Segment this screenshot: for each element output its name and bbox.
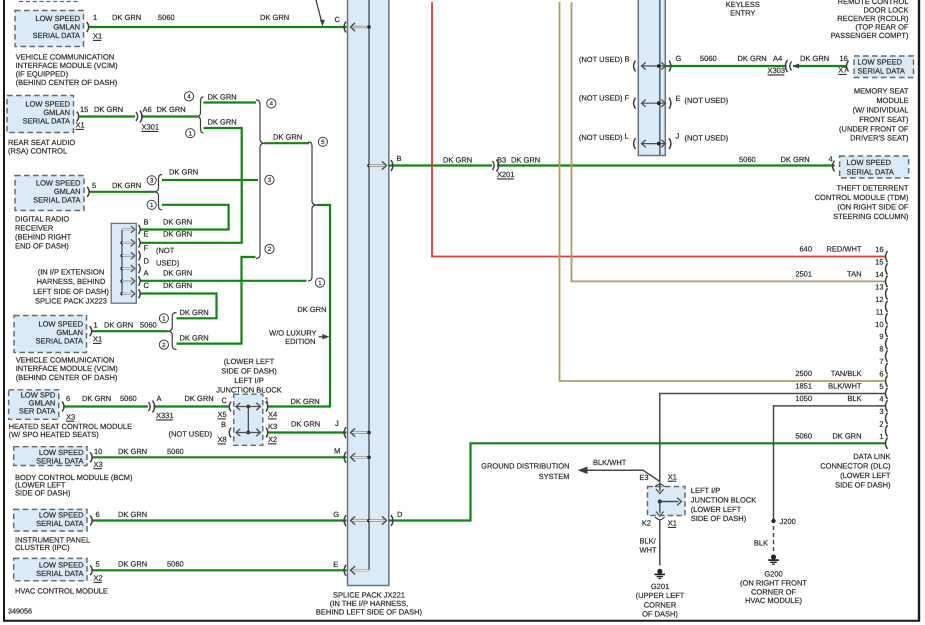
svg-text:SERIAL DATA: SERIAL DATA [36, 457, 83, 466]
svg-text:STEERING COLUMN): STEERING COLUMN) [833, 212, 909, 221]
svg-text:13: 13 [875, 282, 883, 291]
svg-text:CLUSTER (IPC): CLUSTER (IPC) [15, 543, 70, 552]
svg-text:L: L [625, 132, 629, 141]
svg-text:JUNCTION BLOCK: JUNCTION BLOCK [216, 386, 281, 395]
svg-text:X4: X4 [268, 410, 277, 419]
svg-text:BLK/: BLK/ [640, 537, 657, 546]
svg-text:TAN: TAN [847, 269, 861, 278]
svg-text:LOW SPEED: LOW SPEED [847, 158, 892, 167]
svg-text:BLK: BLK [847, 394, 861, 403]
svg-text:DK GRN: DK GRN [180, 334, 209, 343]
svg-text:DIGITAL RADIO: DIGITAL RADIO [15, 215, 69, 224]
svg-text:B: B [221, 420, 226, 429]
svg-text:DK GRN: DK GRN [163, 269, 192, 278]
svg-text:9: 9 [879, 332, 883, 341]
svg-text:C: C [144, 281, 150, 290]
svg-text:(NOT USED): (NOT USED) [579, 133, 623, 142]
svg-text:A4: A4 [773, 54, 782, 63]
svg-text:2: 2 [268, 246, 272, 253]
svg-text:2500: 2500 [795, 369, 812, 378]
svg-text:(ON RIGHT FRONT: (ON RIGHT FRONT [740, 578, 807, 587]
svg-text:1: 1 [93, 13, 97, 22]
svg-text:6: 6 [879, 370, 883, 379]
svg-text:CORNER: CORNER [644, 600, 677, 609]
svg-text:SER DATA: SER DATA [19, 407, 55, 416]
svg-text:MEMORY SEAT: MEMORY SEAT [854, 87, 909, 96]
svg-text:KEYLESS: KEYLESS [726, 0, 760, 9]
svg-text:GROUND DISTRIBUTION: GROUND DISTRIBUTION [481, 461, 569, 470]
svg-text:5: 5 [92, 181, 96, 190]
svg-text:BLK: BLK [754, 539, 768, 548]
svg-text:A6: A6 [143, 105, 152, 114]
svg-text:DK GRN: DK GRN [185, 394, 214, 403]
svg-text:END OF DASH): END OF DASH) [15, 242, 69, 251]
svg-text:640: 640 [799, 245, 812, 254]
svg-text:5060: 5060 [700, 54, 717, 63]
svg-text:VEHICLE COMMUNICATION: VEHICLE COMMUNICATION [16, 355, 115, 364]
svg-text:EDITION: EDITION [285, 337, 315, 346]
svg-text:1: 1 [162, 316, 166, 323]
svg-text:G: G [333, 510, 339, 519]
svg-text:(RSA) CONTROL: (RSA) CONTROL [8, 147, 67, 156]
svg-text:(BEHIND RIGHT: (BEHIND RIGHT [15, 233, 72, 242]
svg-text:G200: G200 [764, 570, 782, 579]
svg-text:X8: X8 [218, 435, 227, 444]
svg-text:LEFT I/P: LEFT I/P [691, 486, 720, 495]
svg-text:SIDE OF DASH): SIDE OF DASH) [691, 514, 747, 523]
svg-text:DK GRN: DK GRN [163, 230, 192, 239]
svg-text:D: D [397, 510, 403, 519]
svg-text:1851: 1851 [795, 382, 812, 391]
svg-text:HVAC CONTROL MODULE: HVAC CONTROL MODULE [15, 586, 108, 595]
svg-text:SERIAL DATA: SERIAL DATA [858, 67, 905, 76]
svg-text:3: 3 [879, 407, 883, 416]
svg-text:15: 15 [875, 258, 883, 267]
svg-text:1: 1 [150, 202, 154, 209]
svg-text:SPLICE PACK JX223: SPLICE PACK JX223 [35, 297, 107, 306]
svg-text:DK GRN: DK GRN [260, 13, 289, 22]
svg-text:(LOWER LEFT: (LOWER LEFT [224, 357, 275, 366]
svg-text:B: B [625, 55, 630, 64]
svg-text:DK GRN: DK GRN [297, 305, 326, 314]
svg-text:(NOT USED): (NOT USED) [685, 133, 729, 142]
svg-text:J200: J200 [780, 517, 796, 526]
svg-text:DK GRN: DK GRN [104, 321, 133, 330]
svg-text:SIDE OF DASH): SIDE OF DASH) [15, 488, 71, 497]
svg-text:MODULE: MODULE [876, 96, 908, 105]
svg-text:1: 1 [318, 280, 322, 287]
svg-text:16: 16 [840, 54, 848, 63]
svg-text:3: 3 [268, 177, 272, 184]
svg-text:DK GRN: DK GRN [163, 218, 192, 227]
svg-text:SERIAL DATA: SERIAL DATA [23, 117, 70, 126]
svg-text:DK GRN: DK GRN [180, 308, 209, 317]
svg-text:(IN I/P EXTENSION: (IN I/P EXTENSION [38, 267, 105, 276]
svg-text:16: 16 [875, 245, 883, 254]
svg-text:1: 1 [265, 396, 269, 405]
svg-text:LOW SPEED: LOW SPEED [858, 57, 903, 66]
svg-text:B: B [144, 218, 149, 227]
svg-text:5060: 5060 [158, 13, 175, 22]
svg-text:BEHIND LEFT SIDE OF DASH): BEHIND LEFT SIDE OF DASH) [316, 608, 423, 617]
svg-text:F: F [625, 93, 630, 102]
svg-text:DK GRN: DK GRN [82, 394, 111, 403]
svg-text:RECEIVER: RECEIVER [15, 224, 54, 233]
svg-text:B: B [397, 154, 402, 163]
svg-text:(LOWER LEFT: (LOWER LEFT [691, 505, 742, 514]
svg-text:X1: X1 [93, 335, 102, 344]
svg-text:DK GRN: DK GRN [157, 105, 186, 114]
svg-text:A: A [157, 394, 162, 403]
svg-text:X5: X5 [218, 410, 227, 419]
svg-text:X301: X301 [142, 123, 160, 132]
svg-text:HVAC MODULE): HVAC MODULE) [745, 596, 802, 605]
svg-text:6: 6 [66, 394, 70, 403]
svg-text:5060: 5060 [739, 155, 756, 164]
svg-text:(ON RIGHT SIDE OF: (ON RIGHT SIDE OF [837, 203, 909, 212]
svg-text:G: G [676, 54, 682, 63]
svg-text:E3: E3 [639, 473, 648, 482]
svg-text:DK GRN: DK GRN [208, 118, 237, 127]
svg-text:DK GRN: DK GRN [118, 510, 147, 519]
svg-text:SERIAL DATA: SERIAL DATA [33, 196, 80, 205]
svg-text:X331: X331 [156, 411, 174, 420]
svg-text:DK GRN: DK GRN [291, 397, 320, 406]
svg-text:SERIAL DATA: SERIAL DATA [36, 337, 83, 346]
svg-text:SERIAL DATA: SERIAL DATA [33, 31, 80, 40]
svg-text:F: F [144, 244, 149, 253]
svg-text:(NOT USED): (NOT USED) [579, 94, 623, 103]
svg-text:DK GRN: DK GRN [163, 281, 192, 290]
svg-text:5: 5 [321, 139, 325, 146]
svg-text:DK GRN: DK GRN [443, 156, 472, 165]
svg-text:4: 4 [829, 155, 833, 164]
svg-text:(LOWER LEFT: (LOWER LEFT [840, 471, 891, 480]
svg-text:DK GRN: DK GRN [94, 105, 123, 114]
svg-text:(NOT USED): (NOT USED) [169, 430, 213, 439]
svg-text:X303: X303 [768, 66, 786, 75]
svg-text:DK GRN: DK GRN [112, 181, 141, 190]
svg-text:A: A [144, 269, 149, 278]
svg-text:K3: K3 [268, 422, 277, 431]
svg-text:E: E [333, 560, 338, 569]
svg-text:E: E [676, 94, 681, 103]
svg-text:TAN/BLK: TAN/BLK [831, 369, 862, 378]
svg-text:PASSENGER COMPT): PASSENGER COMPT) [831, 31, 909, 40]
svg-text:10: 10 [94, 447, 102, 456]
svg-text:(W/ INDIVIDUAL: (W/ INDIVIDUAL [853, 106, 909, 115]
svg-text:WHT: WHT [640, 546, 657, 555]
svg-text:8: 8 [879, 345, 883, 354]
svg-text:BLK/WHT: BLK/WHT [593, 458, 627, 467]
svg-text:4: 4 [879, 394, 883, 403]
svg-text:7: 7 [879, 357, 883, 366]
svg-text:SERIAL DATA: SERIAL DATA [847, 167, 894, 176]
svg-text:5: 5 [96, 560, 100, 569]
svg-text:THEFT DETERRENT: THEFT DETERRENT [837, 183, 909, 192]
svg-text:SYSTEM: SYSTEM [539, 472, 570, 481]
svg-text:X1: X1 [668, 472, 677, 481]
svg-text:C: C [335, 15, 341, 24]
svg-text:X2: X2 [94, 574, 103, 583]
svg-text:14: 14 [875, 270, 883, 279]
svg-text:1: 1 [879, 432, 883, 441]
svg-text:B3: B3 [497, 156, 506, 165]
svg-text:CONTROL MODULE (TDM): CONTROL MODULE (TDM) [815, 193, 909, 202]
svg-text:1: 1 [189, 130, 193, 137]
svg-text:DK GRN: DK GRN [169, 168, 198, 177]
svg-text:X1: X1 [668, 519, 677, 528]
svg-text:SERIAL DATA: SERIAL DATA [36, 519, 83, 528]
svg-text:G201: G201 [651, 582, 669, 591]
svg-text:X7: X7 [838, 66, 847, 75]
svg-text:5: 5 [879, 382, 883, 391]
svg-text:M: M [334, 447, 340, 456]
svg-text:(NOT USED): (NOT USED) [685, 96, 729, 105]
svg-text:DK GRN: DK GRN [781, 155, 810, 164]
svg-text:X3: X3 [94, 460, 103, 469]
svg-text:(UPPER LEFT: (UPPER LEFT [636, 591, 685, 600]
svg-text:(BEHIND CENTER OF DASH): (BEHIND CENTER OF DASH) [16, 373, 118, 382]
svg-text:(W/ SPO HEATED SEATS): (W/ SPO HEATED SEATS) [9, 430, 100, 439]
svg-text:(UNDER FRONT OF: (UNDER FRONT OF [839, 124, 909, 133]
svg-text:LEFT SIDE OF DASH): LEFT SIDE OF DASH) [33, 287, 109, 296]
svg-text:X2: X2 [268, 435, 277, 444]
svg-text:(NOT: (NOT [156, 246, 175, 255]
svg-text:X3: X3 [66, 412, 75, 421]
svg-text:5060: 5060 [795, 431, 812, 440]
svg-text:DK GRN: DK GRN [832, 431, 861, 440]
svg-text:C: C [222, 396, 228, 405]
svg-text:X201: X201 [497, 170, 515, 179]
svg-text:J: J [335, 419, 339, 428]
svg-text:11: 11 [876, 307, 884, 316]
svg-text:J: J [676, 132, 680, 141]
svg-text:3: 3 [150, 178, 154, 185]
svg-text:(BEHIND CENTER OF DASH): (BEHIND CENTER OF DASH) [16, 78, 118, 87]
svg-text:RED/WHT: RED/WHT [827, 245, 862, 254]
svg-text:DK GRN: DK GRN [738, 54, 767, 63]
svg-text:X1: X1 [76, 121, 85, 130]
svg-text:FRONT SEAT): FRONT SEAT) [859, 115, 909, 124]
svg-text:349056: 349056 [8, 607, 32, 616]
svg-text:INTERFACE MODULE (VCIM): INTERFACE MODULE (VCIM) [16, 364, 119, 373]
svg-text:(NOT USED): (NOT USED) [579, 55, 623, 64]
svg-text:K2: K2 [642, 519, 651, 528]
svg-text:JUNCTION BLOCK: JUNCTION BLOCK [691, 496, 756, 505]
svg-text:15: 15 [80, 105, 88, 114]
svg-text:DK GRN: DK GRN [800, 54, 829, 63]
svg-text:BLK/WHT: BLK/WHT [828, 382, 862, 391]
svg-text:HARNESS, BEHIND: HARNESS, BEHIND [37, 277, 106, 286]
svg-text:SIDE OF DASH): SIDE OF DASH) [835, 480, 891, 489]
svg-text:DRIVER'S SEAT): DRIVER'S SEAT) [850, 134, 909, 143]
svg-text:4: 4 [187, 94, 191, 101]
svg-text:4: 4 [270, 101, 274, 108]
svg-text:ENTRY: ENTRY [730, 9, 755, 18]
svg-text:DK GRN: DK GRN [112, 13, 141, 22]
svg-text:CORNER OF: CORNER OF [751, 587, 796, 596]
svg-text:OF DASH): OF DASH) [642, 610, 678, 619]
svg-text:2: 2 [879, 419, 883, 428]
svg-text:USED): USED) [156, 259, 180, 268]
svg-text:DK GRN: DK GRN [273, 133, 302, 142]
svg-text:DK GRN: DK GRN [291, 420, 320, 429]
svg-text:5060: 5060 [140, 321, 157, 330]
svg-text:SERIAL DATA: SERIAL DATA [36, 569, 83, 578]
svg-text:D: D [144, 257, 150, 266]
svg-text:1050: 1050 [795, 394, 812, 403]
svg-text:CONNECTOR (DLC): CONNECTOR (DLC) [820, 461, 891, 470]
svg-text:5060: 5060 [167, 447, 184, 456]
svg-text:12: 12 [875, 295, 883, 304]
svg-text:DK GRN: DK GRN [511, 156, 540, 165]
svg-text:5060: 5060 [167, 560, 184, 569]
svg-text:6: 6 [96, 510, 100, 519]
svg-text:1: 1 [94, 321, 98, 330]
svg-text:DK GRN: DK GRN [208, 93, 237, 102]
svg-text:DK GRN: DK GRN [118, 447, 147, 456]
svg-text:SIDE OF DASH): SIDE OF DASH) [221, 367, 277, 376]
svg-text:DATA LINK: DATA LINK [853, 452, 890, 461]
svg-text:10: 10 [875, 320, 883, 329]
svg-text:2: 2 [162, 342, 166, 349]
svg-text:5060: 5060 [120, 394, 137, 403]
svg-text:LEFT I/P: LEFT I/P [234, 376, 263, 385]
svg-text:DK GRN: DK GRN [118, 560, 147, 569]
svg-text:2501: 2501 [795, 269, 812, 278]
svg-text:E: E [144, 230, 149, 239]
svg-text:X1: X1 [93, 32, 102, 41]
